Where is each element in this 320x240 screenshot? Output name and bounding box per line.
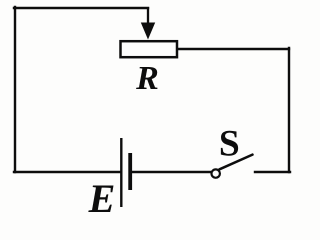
wire resistor to top-right corner (178, 48, 289, 50)
wire bottom-right stub (255, 171, 290, 173)
wire right vertical (288, 48, 290, 172)
wire bottom left horizontal (14, 171, 121, 173)
switch S (212, 155, 253, 178)
svg-text:E: E (88, 176, 116, 220)
wire battery to switch (131, 171, 211, 173)
rheostat arrow (141, 7, 155, 40)
battery E (121, 138, 130, 207)
svg-text:R: R (135, 60, 159, 97)
wire left vertical (14, 7, 16, 172)
resistor R (rheostat body) (121, 41, 178, 57)
wire top horizontal (14, 7, 148, 9)
svg-text:S: S (219, 123, 240, 164)
